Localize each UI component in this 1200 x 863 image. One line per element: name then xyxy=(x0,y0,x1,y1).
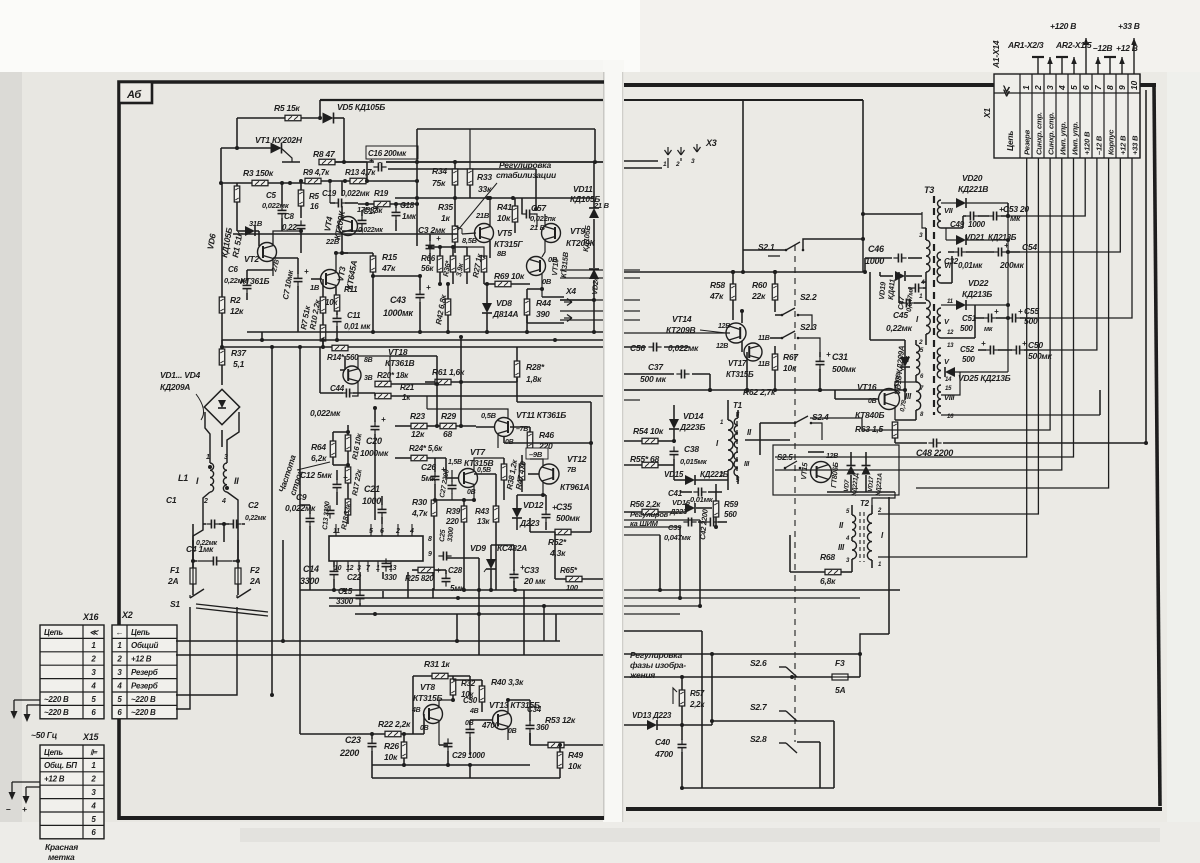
capacitor C15 3300 xyxy=(356,590,365,603)
wire xyxy=(490,569,492,590)
svg-text:С20: С20 xyxy=(366,436,382,446)
wire xyxy=(727,400,729,420)
wire xyxy=(732,272,734,284)
wire xyxy=(486,284,488,303)
bottom scan band xyxy=(0,822,1200,863)
wire xyxy=(850,452,852,465)
svg-text:КД221В: КД221В xyxy=(958,184,988,194)
wire xyxy=(526,315,528,323)
wire VT4-R15 xyxy=(342,252,373,254)
wire xyxy=(320,392,343,394)
wire xyxy=(345,202,358,204)
wire xyxy=(1007,203,1009,216)
transistor VT13 xyxy=(493,711,512,730)
svg-text:8: 8 xyxy=(1105,85,1115,90)
svg-text:S2.6: S2.6 xyxy=(750,658,767,668)
wire xyxy=(774,300,776,312)
svg-text:10к: 10к xyxy=(497,213,511,223)
wire xyxy=(555,578,566,580)
svg-text:С41: С41 xyxy=(668,489,683,498)
capacitor C22 330 xyxy=(382,558,391,571)
wire xyxy=(342,252,348,254)
wire xyxy=(321,180,350,182)
wire xyxy=(273,257,298,259)
T3 winding V2 right xyxy=(937,348,941,378)
wire xyxy=(236,595,238,598)
resistor R68 6.8k xyxy=(825,569,841,575)
resistor R37 xyxy=(219,349,225,365)
wire xyxy=(446,557,479,559)
wire xyxy=(220,148,222,183)
wire xyxy=(848,676,860,678)
svg-text:S2.4: S2.4 xyxy=(812,412,829,422)
resistor R22 2.2k xyxy=(385,731,401,737)
svg-text:+120 В: +120 В xyxy=(1083,131,1092,155)
wire xyxy=(412,569,418,571)
resistor R16 10k vertical xyxy=(345,435,351,451)
dashed coupling line S2 xyxy=(794,245,796,742)
svg-text:2: 2 xyxy=(203,498,208,505)
svg-text:8В: 8В xyxy=(364,357,373,364)
wire xyxy=(336,470,338,480)
wire xyxy=(419,302,421,332)
X1 pin3 arrow xyxy=(1047,57,1053,74)
diode VD7 КД221Д rotated xyxy=(847,466,856,475)
wire xyxy=(529,448,531,455)
wire xyxy=(300,504,310,506)
wire C48 riser junction xyxy=(1144,441,1148,445)
svg-text:VD25 КД213Б: VD25 КД213Б xyxy=(958,373,1011,383)
svg-text:R3 150к: R3 150к xyxy=(243,168,274,178)
svg-text:0,047мк: 0,047мк xyxy=(664,533,692,542)
wire xyxy=(732,300,734,320)
svg-text:F3: F3 xyxy=(835,658,845,668)
wire xyxy=(859,654,861,677)
resistor R54 10k xyxy=(642,438,658,444)
wire VT18 collector xyxy=(358,356,390,381)
capacitor C30 4700 xyxy=(466,724,475,737)
svg-text:L1: L1 xyxy=(178,473,188,483)
T2 winding II xyxy=(852,515,856,537)
X1 pin5 drop xyxy=(775,158,1074,457)
capacitor C44 xyxy=(341,389,354,398)
svg-text:1: 1 xyxy=(1021,85,1031,90)
wire R33 xyxy=(469,129,471,169)
wire xyxy=(530,744,548,746)
wire xyxy=(594,129,596,160)
svg-text:1мк: 1мк xyxy=(402,212,417,221)
svg-text:2: 2 xyxy=(116,655,122,664)
svg-text:56к: 56к xyxy=(421,264,434,273)
wire to X15 pin1 xyxy=(11,782,13,792)
capacitor C7 polarized xyxy=(294,267,310,287)
svg-text:С35: С35 xyxy=(556,502,573,512)
wire xyxy=(674,479,685,481)
wire xyxy=(439,744,448,746)
T3 winding II left lower xyxy=(916,345,920,375)
wire xyxy=(395,220,397,231)
transistor VT9 xyxy=(542,224,561,243)
seam page edge shadows xyxy=(603,72,605,820)
svg-text:8: 8 xyxy=(428,536,432,543)
wire xyxy=(871,560,873,568)
wire L1 I top to bridge xyxy=(205,412,210,463)
diode VD13 xyxy=(647,720,657,730)
transistor VT18 xyxy=(343,366,361,384)
svg-text:Резерб: Резерб xyxy=(131,668,159,677)
wire xyxy=(503,480,505,500)
svg-text:Общ. БП: Общ. БП xyxy=(44,761,77,770)
wire xyxy=(770,337,782,339)
wire xyxy=(242,523,245,525)
svg-text:С9: С9 xyxy=(296,492,307,502)
wire xyxy=(945,228,947,240)
wire xyxy=(335,161,367,163)
T1 core dashed xyxy=(736,412,738,480)
wire xyxy=(342,230,362,232)
T3 winding VII right xyxy=(938,200,942,228)
wire X2 pin6 to S1 xyxy=(176,607,190,709)
wire xyxy=(221,430,223,447)
wire xyxy=(743,249,786,251)
IC D1 horizontal oscillator block xyxy=(329,536,423,561)
label C16 200мк xyxy=(366,146,418,159)
T3 core dashed xyxy=(933,196,935,415)
wire xyxy=(624,724,647,726)
resistor R32 10k xyxy=(450,679,456,695)
wire xyxy=(466,272,468,284)
capacitor C28 5мк xyxy=(442,573,451,586)
svg-text:13: 13 xyxy=(947,343,954,349)
T3 winding III left lower xyxy=(916,382,921,410)
wire xyxy=(974,318,976,330)
T1 winding III xyxy=(734,452,738,476)
svg-text:R69 10к: R69 10к xyxy=(494,271,525,281)
wire xyxy=(904,367,906,400)
svg-text:R65*: R65* xyxy=(560,566,578,575)
wire xyxy=(469,676,471,700)
svg-text:12к: 12к xyxy=(411,429,425,439)
wire xyxy=(514,222,516,233)
wire xyxy=(673,405,675,419)
wire xyxy=(423,714,425,734)
svg-text:КД213Б: КД213Б xyxy=(962,289,992,299)
wire VT17 base drop xyxy=(746,352,748,390)
capacitor C27 xyxy=(448,480,457,493)
right scan edge xyxy=(1167,72,1200,863)
T3 winding VIII right xyxy=(938,385,942,413)
svg-text:С38: С38 xyxy=(684,444,699,454)
wire xyxy=(503,436,505,443)
svg-text:R33: R33 xyxy=(477,172,492,182)
svg-text:1к: 1к xyxy=(441,213,450,223)
svg-text:Аб: Аб xyxy=(126,89,142,101)
wire xyxy=(481,702,483,712)
wire VT7c xyxy=(474,473,496,475)
wire xyxy=(529,518,531,532)
left page paper xyxy=(22,72,603,828)
wire xyxy=(948,251,954,253)
svg-text:КД213Б: КД213Б xyxy=(988,233,1017,242)
wire xyxy=(456,425,476,427)
diode VD16 Д223 xyxy=(685,503,695,513)
svg-text:F1: F1 xyxy=(170,565,180,575)
wire xyxy=(530,531,555,533)
wire xyxy=(332,457,334,465)
wire xyxy=(330,202,335,204)
wire xyxy=(582,578,603,580)
wire xyxy=(624,399,640,401)
wire xyxy=(560,269,603,271)
svg-text:Корпус: Корпус xyxy=(1107,129,1116,155)
svg-text:4700: 4700 xyxy=(481,721,500,730)
svg-text:С5: С5 xyxy=(266,191,277,200)
svg-text:С31: С31 xyxy=(832,352,848,362)
potentiometer R57 2.2k xyxy=(679,690,685,706)
wire xyxy=(895,442,927,444)
wire xyxy=(851,505,853,515)
wire xyxy=(715,517,717,527)
svg-text:10: 10 xyxy=(1129,81,1139,90)
wire xyxy=(951,256,953,283)
svg-text:R14* 560: R14* 560 xyxy=(327,353,359,362)
connector X16 table xyxy=(40,625,104,719)
svg-text:S1: S1 xyxy=(170,599,180,609)
wire xyxy=(908,287,911,289)
svg-text:S2.2: S2.2 xyxy=(800,292,817,302)
wire xyxy=(434,569,446,571)
wire xyxy=(301,117,318,119)
wire X2 pin5 to S1 xyxy=(176,607,237,695)
wire xyxy=(484,283,495,285)
transistor VT7 xyxy=(459,469,478,488)
resistor R21 1k xyxy=(375,393,391,399)
wire xyxy=(281,183,283,206)
wire xyxy=(371,751,373,765)
wire xyxy=(624,464,642,466)
svg-text:AR1-Х2/3: AR1-Х2/3 xyxy=(1007,40,1044,50)
resistor R65* 100 xyxy=(566,576,582,582)
svg-text:R30: R30 xyxy=(412,497,427,507)
T2 winding I xyxy=(867,514,872,560)
wire xyxy=(865,475,867,492)
svg-text:С1: С1 xyxy=(166,495,177,505)
resistor R2 12k xyxy=(219,297,225,313)
svg-text:4В: 4В xyxy=(411,707,421,714)
wire xyxy=(560,319,603,321)
wire xyxy=(119,816,604,820)
svg-text:VD20: VD20 xyxy=(962,173,983,183)
X1 pin9 arrow +12V xyxy=(1119,57,1125,74)
svg-text:R13 4,7к: R13 4,7к xyxy=(345,168,376,177)
svg-text:С17: С17 xyxy=(363,207,378,216)
fuse F3 xyxy=(832,674,848,680)
wire xyxy=(681,787,834,789)
wire xyxy=(281,218,283,231)
wire xyxy=(624,99,863,101)
T1 winding II xyxy=(734,418,738,448)
wire S2.1 to C46 node xyxy=(803,239,863,272)
wire VT8 collector xyxy=(439,700,453,706)
resistor R38 1.2k vertical xyxy=(501,464,507,480)
svg-text:R26: R26 xyxy=(384,741,399,751)
wire xyxy=(640,613,680,615)
svg-text:12: 12 xyxy=(346,565,354,572)
wire xyxy=(386,161,603,163)
svg-text:6,2к: 6,2к xyxy=(311,453,327,463)
wire leg right xyxy=(237,524,239,561)
capacitor C29 1000 xyxy=(444,738,453,751)
wire xyxy=(792,676,832,678)
resistor R5 15k xyxy=(285,115,301,121)
wire x272 to X2.5 xyxy=(270,693,274,697)
wire xyxy=(681,706,683,725)
svg-text:Х16: Х16 xyxy=(82,612,100,622)
svg-text:8В: 8В xyxy=(497,249,507,258)
wire xyxy=(516,377,518,402)
wire xyxy=(246,293,248,300)
svg-text:R59: R59 xyxy=(724,500,739,509)
wire xyxy=(922,281,926,283)
resistor R59 560 xyxy=(713,501,719,517)
wire xyxy=(571,531,591,533)
wire xyxy=(176,654,603,656)
wire xyxy=(925,228,927,240)
svg-text:0,022мк: 0,022мк xyxy=(262,201,290,210)
wire xyxy=(411,524,413,536)
wire xyxy=(851,537,853,541)
resistor R34 75k xyxy=(452,169,458,185)
wire xyxy=(407,584,409,598)
wire xyxy=(491,544,514,546)
wire xyxy=(759,423,761,440)
capacitor C40 4700 xyxy=(678,739,687,752)
wire xyxy=(359,572,361,591)
svg-text:R8 47: R8 47 xyxy=(313,149,336,159)
wire xyxy=(624,630,702,632)
X1 pin7 arrow -12V xyxy=(1095,57,1101,74)
wire VT2 collector xyxy=(273,231,301,244)
diode VD14 xyxy=(669,419,679,429)
wire xyxy=(358,203,374,205)
wire xyxy=(658,464,674,466)
wire xyxy=(624,160,658,162)
svg-text:R5 15к: R5 15к xyxy=(274,103,300,113)
svg-text:12: 12 xyxy=(947,330,954,336)
wire xyxy=(819,369,821,390)
wire xyxy=(966,251,994,253)
wire xyxy=(560,299,603,301)
svg-text:Т2: Т2 xyxy=(860,499,870,508)
resistor R67 10k xyxy=(772,354,778,370)
wire xyxy=(862,100,864,239)
svg-text:жения: жения xyxy=(629,670,655,680)
wire xyxy=(808,451,824,453)
wire xyxy=(451,381,517,383)
svg-text:+120 В: +120 В xyxy=(1050,21,1076,31)
wire VT11 collector emitter xyxy=(427,409,508,418)
mains down arrow 2 xyxy=(24,714,31,722)
T2 core xyxy=(859,512,861,562)
wire xyxy=(1024,349,1036,351)
wire xyxy=(962,216,964,228)
svg-text:3В: 3В xyxy=(364,375,373,382)
wire xyxy=(427,457,446,459)
svg-text:фазы изобра-: фазы изобра- xyxy=(630,660,686,670)
wire xyxy=(370,524,372,536)
wire VT10 collector xyxy=(541,274,543,289)
svg-text:VT8: VT8 xyxy=(420,682,435,692)
wire xyxy=(760,422,795,424)
transistor VT4 xyxy=(339,217,358,236)
svg-text:←: ← xyxy=(116,628,124,637)
wire xyxy=(869,272,871,340)
wire L1 II top to bridge xyxy=(227,412,239,463)
svg-text:С11: С11 xyxy=(347,311,361,320)
svg-text:+: + xyxy=(304,267,309,276)
T3 winding left upper pins 3-4 xyxy=(926,240,930,272)
X1 pin8 link arrow xyxy=(1104,57,1116,74)
wire to X15 pin2 xyxy=(25,787,27,796)
L1 winding I xyxy=(210,463,214,492)
wire xyxy=(673,459,675,470)
bridge rectifier VD1-VD4 xyxy=(204,389,239,424)
wire xyxy=(545,495,547,510)
wire xyxy=(741,311,743,323)
wire xyxy=(433,516,435,590)
wire xyxy=(486,313,488,332)
svg-text:С21: С21 xyxy=(364,484,380,494)
svg-text:~220 В: ~220 В xyxy=(44,708,69,717)
resistor R58 47k xyxy=(730,284,736,300)
wire xyxy=(483,256,485,258)
svg-text:С46: С46 xyxy=(868,244,885,254)
wire xyxy=(374,393,376,396)
svg-text:~50 Гц: ~50 Гц xyxy=(31,730,58,740)
wire xyxy=(255,230,259,232)
wire xyxy=(300,733,385,735)
svg-text:1000: 1000 xyxy=(968,220,986,229)
wire xyxy=(880,275,893,277)
svg-text:12к: 12к xyxy=(230,306,244,316)
wire xyxy=(923,287,926,289)
wire xyxy=(347,515,349,524)
resistor R69 10k xyxy=(495,281,511,287)
capacitor C17 xyxy=(358,215,367,228)
svg-text:22В: 22В xyxy=(325,237,340,246)
transistor VT14 xyxy=(726,323,746,343)
wire xyxy=(941,227,963,229)
wire VD25 xyxy=(955,371,1008,373)
wire xyxy=(340,369,345,371)
wire xyxy=(367,561,369,572)
wire xyxy=(1006,251,1020,253)
wire xyxy=(879,272,881,276)
wire VT16 emitter xyxy=(894,407,896,420)
svg-text:560: 560 xyxy=(724,510,737,519)
wire VD20 xyxy=(941,202,956,204)
wire xyxy=(237,230,245,232)
svg-text:VD16: VD16 xyxy=(672,498,691,507)
wire VT12 xyxy=(530,459,543,466)
resistor R5-16 vertical xyxy=(298,190,304,206)
svg-text:R60: R60 xyxy=(752,280,767,290)
svg-text:R11: R11 xyxy=(344,285,358,294)
wire xyxy=(268,182,305,184)
svg-text:+: + xyxy=(343,473,348,482)
svg-text:15: 15 xyxy=(945,386,952,392)
svg-text:стабилизации: стабилизации xyxy=(496,170,557,180)
